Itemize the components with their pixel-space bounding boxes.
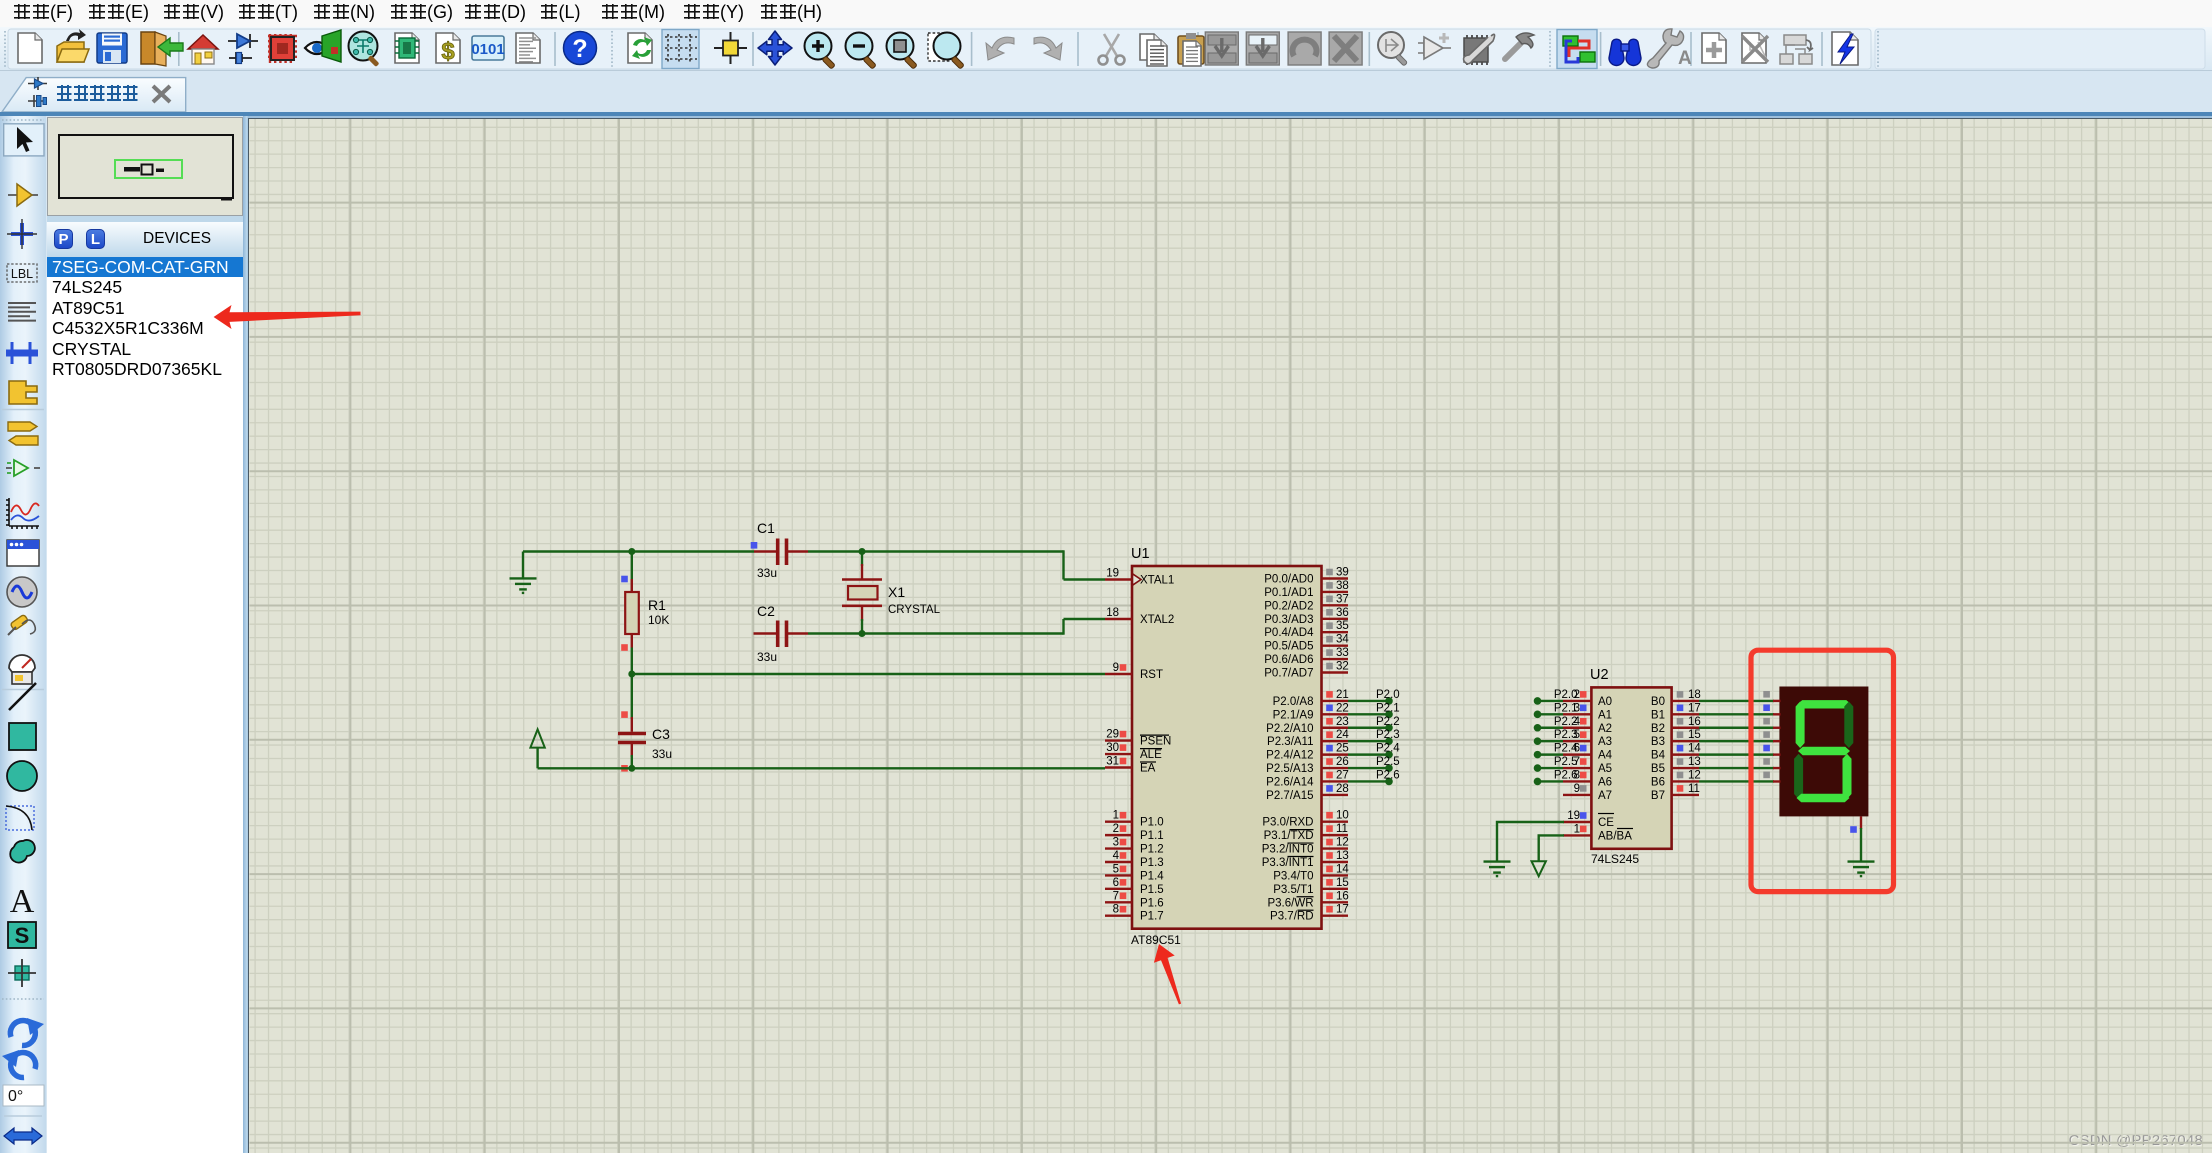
canvas grid minor lines: [250, 127, 2212, 1148]
wire net P2.1 into U2: [1538, 713, 1564, 715]
annotation arrow pointing at device list: [214, 305, 361, 329]
wire net P2.5 into U2: [1538, 767, 1564, 769]
wire net P2.1 from U1: [1348, 713, 1389, 715]
toolbar: [0, 27, 2212, 71]
handle C3 top: [621, 711, 628, 718]
display pin 1 stub: [1773, 713, 1781, 715]
U1 pin 3 P1.2: [1105, 837, 1164, 856]
resistor R1: [625, 552, 639, 675]
wire net XTAL1 segment c (corner drop): [1062, 550, 1064, 579]
U1 pin 39 P0.0/AD0: [1264, 567, 1349, 586]
node label P2.1 (U1 side): [1385, 711, 1393, 719]
U2 pin 17 B1: [1651, 702, 1701, 721]
wire net P2.0 into U2: [1538, 700, 1564, 702]
wire segment B5 to display: [1699, 767, 1774, 769]
U1 pin 1 P1.0: [1105, 810, 1164, 829]
display pin 4 stub: [1773, 753, 1781, 755]
menu bar: [0, 0, 2212, 27]
svg-text:$: $: [441, 38, 455, 65]
node label P2.3 (U2 side): [1534, 737, 1542, 745]
capacitor C3: [618, 674, 646, 768]
U1 pin 37 P0.2/AD2: [1264, 593, 1349, 612]
wire net P2.4 into U2: [1538, 753, 1564, 755]
segment E (off): [1794, 754, 1803, 799]
ground GND2 (U2 CE): [1484, 862, 1511, 877]
U2 pin 3 A1: [1563, 702, 1612, 721]
junction J1 (R1 top / XTAL1 rail): [628, 548, 635, 555]
U1 pin 23 P2.2/A10: [1266, 716, 1349, 735]
node label P2.5 (U1 side): [1385, 764, 1393, 772]
wire net XTAL2 segment b (corner rise): [1062, 619, 1064, 635]
segment G (on): [1798, 747, 1850, 755]
junction J4 (R1 bottom / RST / C3 top): [628, 671, 635, 678]
wire net XTAL1 segment a: [523, 550, 754, 552]
display common cathode pin: [1860, 816, 1862, 829]
handle display common: [1850, 826, 1857, 833]
wire net XTAL1 segment b: [808, 550, 1064, 552]
wire segment B1 to display: [1699, 713, 1774, 715]
wire net P2.4 from U1: [1348, 753, 1389, 755]
U1 pin 6 P1.5: [1105, 877, 1164, 896]
U2 pin 7 A5: [1563, 756, 1612, 775]
segment B (off): [1844, 702, 1853, 749]
U2 pin 12 B6: [1651, 769, 1701, 788]
selection box around 7-seg display: [1751, 650, 1894, 891]
wire net P2.6 from U1: [1348, 780, 1389, 782]
segment F (on): [1796, 702, 1805, 749]
node label P2.3 (U1 side): [1385, 737, 1393, 745]
U1 pin 16 P3.6/WR: [1267, 890, 1348, 909]
U1 pin 35 P0.4/AD4: [1264, 620, 1349, 639]
node label P2.6 (U1 side): [1385, 778, 1393, 786]
U1 pin 9 RST: [1105, 662, 1163, 681]
node label P2.5 (U2 side): [1534, 764, 1542, 772]
annotation arrow pointing at AT89C51: [1154, 944, 1181, 1004]
U1 pin 29 PSEN: [1105, 729, 1171, 748]
U1 pin 10 P3.0/RXD: [1262, 810, 1348, 829]
U1 pin 7 P1.6: [1105, 890, 1164, 909]
U1 pin 25 P2.4/A12: [1266, 743, 1349, 762]
U1 pin 17 P3.7/RD: [1270, 904, 1349, 923]
7-segment display DS1 (7SEG-COM-CAT-GRN) body: [1779, 687, 1868, 817]
U1 pin 38 P0.1/AD1: [1264, 580, 1349, 599]
handle C3 bottom: [621, 765, 628, 772]
U2 pin 15 B3: [1651, 729, 1701, 748]
U1 pin 27 P2.6/A14: [1266, 769, 1349, 788]
U1 pin 22 P2.1/A9: [1273, 702, 1349, 721]
segment C (on): [1843, 754, 1852, 799]
U1 pin 2 P1.1: [1105, 823, 1164, 842]
U2 pin 14 B4: [1651, 743, 1701, 762]
handle R1 top: [621, 576, 628, 583]
U2 pin 2 A0: [1563, 689, 1612, 708]
U2 pin 13 B5: [1651, 756, 1701, 775]
node label P2.6 (U2 side): [1534, 778, 1542, 786]
U1 pin 21 P2.0/A8: [1273, 689, 1349, 708]
U1 pin 36 P0.3/AD3: [1264, 607, 1349, 626]
U2 pin 4 A2: [1563, 716, 1612, 735]
U2 pin 16 B2: [1651, 716, 1701, 735]
U1 pin 13 P3.3/INT1: [1262, 850, 1349, 869]
U1 pin 15 P3.5/T1: [1273, 877, 1349, 896]
devices header: [47, 222, 243, 257]
U1 pin 8 P1.7: [1105, 904, 1164, 923]
capacitor C2: [754, 621, 809, 648]
op IC U1 AT89C51 body: [1132, 566, 1322, 929]
svg-text:0101: 0101: [471, 41, 504, 58]
display pin 6 stub: [1773, 780, 1781, 782]
wire segment B0 to display: [1699, 700, 1774, 702]
display pin 2 stub: [1773, 727, 1781, 729]
U1 pin 28 P2.7/A15: [1266, 783, 1349, 802]
node label P2.4 (U2 side): [1534, 751, 1542, 759]
U2 pin 19 CE: [1563, 810, 1614, 829]
node label P2.0 (U1 side): [1385, 697, 1393, 705]
svg-text:S: S: [15, 923, 30, 948]
wire net XTAL1 segment d (to pin 19): [1064, 578, 1106, 580]
U1 pin 31 EA: [1105, 756, 1156, 775]
U2 pin 6 A4: [1563, 743, 1613, 762]
U2 pin 8 A6: [1563, 769, 1612, 788]
U1 pin 11 P3.1/TXD: [1264, 823, 1348, 842]
svg-text:A: A: [10, 883, 35, 920]
junction J5 (C3 bottom / EA rail): [628, 765, 635, 772]
ground GND1 (top-left): [510, 578, 537, 593]
U1 pin 26 P2.5/A13: [1266, 756, 1349, 775]
device list: [47, 257, 243, 1153]
U2 pin 9 A7: [1563, 783, 1612, 802]
wire segment B4 to display: [1699, 753, 1774, 755]
power terminal (up arrow) for EA net: [530, 729, 544, 768]
junction J2 (C1-X1 junction): [859, 548, 866, 555]
U1 pin 32 P0.7/AD7: [1264, 661, 1349, 680]
wire AB/BA to ground arrow: [1539, 835, 1564, 860]
segment A (on): [1798, 700, 1852, 708]
node label P2.0 (U2 side): [1534, 697, 1542, 705]
wire net P2.2 from U1: [1348, 727, 1389, 729]
handle R1 bottom: [621, 644, 628, 651]
handle C1 left terminal: [751, 542, 758, 549]
svg-text:A: A: [1678, 48, 1692, 69]
wire net P2.3 from U1: [1348, 740, 1389, 742]
tab bar: [0, 71, 2212, 112]
U1 pin 12 P3.2/INT0: [1262, 837, 1349, 856]
wire net P2.3 into U2: [1538, 740, 1564, 742]
display pin 0 stub: [1773, 700, 1781, 702]
wire CE to ground: [1497, 822, 1564, 862]
node label P2.2 (U2 side): [1534, 724, 1542, 732]
wire net XTAL2 segment c (to pin 18): [1064, 618, 1106, 620]
U1 pin 24 P2.3/A11: [1267, 729, 1349, 748]
junction J3 (X1 bottom / C2 rail): [859, 630, 866, 637]
U2 pin 18 B0: [1651, 689, 1701, 708]
wire segment B6 to display: [1699, 780, 1774, 782]
U1 pin 18 XTAL2: [1105, 607, 1174, 626]
U2 pin 11 B7: [1651, 783, 1700, 802]
wire net P2.5 from U1: [1348, 767, 1389, 769]
node label P2.4 (U1 side): [1385, 751, 1393, 759]
U1 pin 19 XTAL1: [1105, 568, 1174, 587]
node label P2.2 (U1 side): [1385, 724, 1393, 732]
canvas grid major lines: [250, 203, 2212, 1143]
display pin 3 stub: [1773, 740, 1781, 742]
segment D (on): [1797, 794, 1850, 802]
display pin 5 stub: [1773, 767, 1781, 769]
svg-text:0°: 0°: [8, 1088, 23, 1105]
wire net EA rail: [538, 767, 1105, 769]
wire net XTAL2 segment a: [808, 632, 1064, 634]
U2 pin 1 AB/BA: [1563, 823, 1633, 842]
U1 pin 30 ALE: [1105, 742, 1162, 761]
wire net RST (to pin 9): [632, 673, 1105, 675]
node label P2.1 (U2 side): [1534, 711, 1542, 719]
ground terminal (down arrow) for AB/BA: [1532, 861, 1546, 876]
U1 pin 4 P1.3: [1105, 850, 1164, 869]
svg-text:?: ?: [572, 35, 587, 63]
wire segment B2 to display: [1699, 727, 1774, 729]
overview minimap: [47, 117, 243, 216]
wire net P2.2 into U2: [1538, 727, 1564, 729]
left sidebar: [0, 116, 46, 1153]
wire net P2.6 into U2: [1538, 780, 1564, 782]
svg-text:LBL: LBL: [11, 267, 33, 281]
wire net P2.0 from U1: [1348, 700, 1389, 702]
crystal X1: [842, 552, 882, 634]
wire segment B3 to display: [1699, 740, 1774, 742]
U2 pin 5 A3: [1563, 729, 1612, 748]
U1 pin 5 P1.4: [1105, 863, 1164, 882]
U1 pin 33 P0.6/AD6: [1264, 647, 1349, 666]
U1 pin 14 P3.4/T0: [1273, 863, 1349, 882]
U1 pin 34 P0.5/AD5: [1264, 634, 1349, 653]
capacitor C1: [754, 539, 808, 566]
ground GND3 (display): [1848, 862, 1875, 877]
buffer IC U2 74LS245 body: [1591, 687, 1671, 848]
